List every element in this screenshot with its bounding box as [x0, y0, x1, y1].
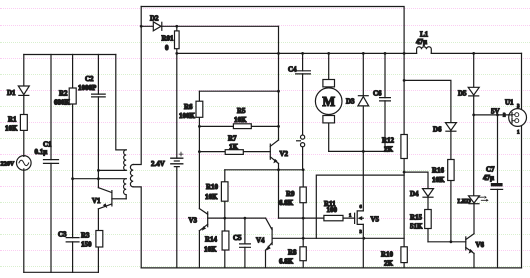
junction: motor line on supply rail [327, 52, 330, 55]
svg-text:2.4V: 2.4V [151, 160, 165, 168]
junction: V5 source / bus [362, 237, 365, 240]
wire: D2 feed wire [141, 25, 278, 27]
svg-text:V3: V3 [189, 217, 198, 225]
capacitor C6 [373, 53, 390, 151]
wire: V4 emitter to rail [265, 250, 267, 268]
junction: supply rail / box border [403, 52, 406, 55]
wire: R2 line to winding W3 [73, 178, 127, 180]
capacitor C5 [233, 218, 250, 268]
scan artifact dotted rows [0, 8, 530, 9]
svg-text:C6: C6 [373, 90, 382, 98]
wire: V1 base to winding3 [112, 198, 126, 200]
wire: LED to V6 collector [473, 204, 475, 234]
junction: node at R10 bottom [223, 217, 226, 220]
svg-text:V4: V4 [256, 237, 265, 245]
transformer winding W3 [124, 179, 127, 199]
connector pair on C4/R9 line [297, 135, 305, 170]
MOSFET V5 [349, 204, 380, 234]
junction: R01 bottom node [175, 52, 178, 55]
svg-text:1K: 1K [229, 143, 239, 151]
svg-text:1000P: 1000P [78, 84, 97, 92]
wire: V6 emitter to rail [473, 253, 475, 268]
junction: V4 base / R8 node [302, 237, 305, 240]
svg-text:D6: D6 [433, 126, 442, 134]
wire: R10-R9 tap wire [225, 169, 303, 171]
wire: V2 emitter line down to gate wire corner [278, 164, 280, 219]
svg-text:R7: R7 [228, 135, 237, 143]
wire: supply rail after L1 to right edge [431, 52, 521, 54]
transistor V1 [92, 188, 112, 209]
junction: V2 emitter line / tap wire [277, 168, 280, 171]
resistor R15 [410, 197, 431, 242]
svg-text:D1: D1 [7, 89, 16, 97]
resistor R10b [381, 247, 407, 268]
wire: V5 drain line [362, 151, 364, 211]
resistor R6 [179, 91, 203, 208]
junction: C4 line on supply rail [301, 52, 304, 55]
diode D2 [150, 15, 162, 31]
svg-text:1: 1 [517, 131, 520, 136]
main box border top and right [141, 7, 404, 268]
wire: V6 base wire [428, 241, 466, 243]
capacitor C4 [288, 53, 310, 134]
wire: V2 collector line from D2 wire [278, 26, 280, 140]
diode D3 [346, 53, 369, 151]
wire: winding W1 bottom to C2 line [98, 169, 126, 171]
junction: border / D2 wire [140, 25, 143, 28]
svg-text:0.1μ: 0.1μ [35, 148, 48, 156]
svg-text:C5: C5 [233, 234, 242, 242]
junction: R9 line / gate wire [302, 217, 305, 220]
resistor R2 [54, 55, 76, 238]
wire: top rail drop to transformer [116, 55, 126, 150]
wire: V3 emitter to rail [198, 231, 200, 268]
svg-text:R6: R6 [184, 103, 193, 111]
junction: R6 top wire on V2 collector line [277, 90, 280, 93]
svg-text:6: 6 [360, 204, 363, 209]
diode D1 [7, 86, 29, 97]
capacitor C1 [35, 55, 59, 273]
transformer winding W1 [124, 150, 127, 170]
svg-text:R14: R14 [205, 236, 218, 244]
IC U1 [503, 53, 527, 268]
junction: R5 wire on V2 collector line [277, 125, 280, 128]
motor M [315, 53, 342, 151]
svg-text:2K: 2K [384, 260, 394, 268]
resistor R1 [5, 115, 27, 133]
svg-text:6.8K: 6.8K [279, 199, 294, 207]
LED [458, 196, 489, 205]
junction: D5 drop on supply rail [472, 52, 475, 55]
inner box around V5 [316, 175, 404, 238]
wire: R9 to R8 segment [302, 218, 304, 238]
svg-text:1: 1 [349, 213, 352, 218]
svg-text:LED: LED [458, 198, 472, 205]
junction: R01 top on D2 wire [175, 25, 178, 28]
transistor V2 [270, 140, 288, 164]
svg-text:V5: V5 [371, 216, 380, 224]
junction: R16 line / V6 base wire [450, 240, 453, 243]
wire: D5 to 5V node to LED [473, 96, 475, 196]
resistor R7 [199, 135, 270, 155]
battery 2.4V [151, 53, 183, 268]
resistor R16 [432, 131, 454, 242]
svg-text:680K: 680K [54, 99, 71, 107]
resistor R14 [204, 218, 229, 268]
svg-text:150: 150 [81, 241, 92, 249]
wire: gate node wire (R10/V3/R14/C5/V4c) [225, 217, 266, 219]
resistor R10 [205, 170, 228, 218]
wire: 5V wire [474, 114, 509, 116]
resistor R5 [199, 107, 278, 129]
svg-text:47μ: 47μ [416, 38, 427, 46]
capacitor C3 [58, 231, 79, 273]
capacitor C2 [78, 55, 105, 171]
svg-text:100K: 100K [179, 112, 196, 120]
transistor V4 [256, 218, 303, 250]
capacitor C7 [483, 115, 503, 268]
junction: R2 line / W3 wire [71, 177, 74, 180]
svg-text:D4: D4 [410, 190, 419, 198]
svg-text:100: 100 [327, 206, 338, 214]
resistor R8 [279, 238, 306, 268]
diode D5 [458, 87, 479, 97]
svg-text:10K: 10K [432, 176, 445, 184]
svg-text:R01: R01 [162, 35, 175, 43]
resistor R11 [324, 200, 343, 221]
wire: V5 source to rail [362, 224, 364, 268]
junction: connector-R9 line / tap wire [302, 168, 305, 171]
junction: C5 on node wire [244, 217, 247, 220]
junction: C2 line / W1 wire [97, 169, 100, 172]
svg-text:R12: R12 [382, 137, 395, 145]
svg-text:R3: R3 [81, 232, 90, 240]
svg-text:47μ: 47μ [483, 174, 494, 182]
junction: 5V wire takeoff [472, 114, 475, 117]
wire: motor bottom bus [329, 150, 385, 152]
svg-text:R10: R10 [381, 251, 394, 259]
transistor V3 [189, 209, 225, 231]
AC source 220V [1, 156, 32, 171]
svg-text:D5: D5 [458, 90, 467, 98]
wire: left top rail [24, 54, 116, 56]
inductor L1 [416, 31, 431, 54]
svg-text:2K: 2K [384, 146, 394, 154]
diode D4 [410, 189, 434, 198]
resistor R3 [81, 209, 103, 272]
wire: main supply rail y53 [177, 52, 417, 54]
junction: C6 line on supply rail [384, 52, 387, 55]
svg-text:D2: D2 [150, 15, 159, 23]
svg-text:V1: V1 [92, 197, 101, 205]
wire: left bottom rail [24, 271, 99, 273]
resistor R12 [382, 135, 407, 159]
svg-text:V6: V6 [476, 241, 485, 249]
wire: D4 branch [404, 172, 428, 189]
transformer winding W2 [130, 165, 133, 187]
junction: D6 branch on border [403, 79, 406, 82]
wire: source node bus [303, 237, 404, 239]
svg-text:R16: R16 [432, 167, 445, 175]
svg-text:3: 3 [360, 229, 363, 234]
svg-text:51K: 51K [410, 223, 423, 231]
resistor R01 [162, 26, 180, 53]
svg-text:U1: U1 [505, 99, 514, 107]
wire: D5/LED line [473, 53, 475, 87]
svg-text:R1: R1 [8, 116, 17, 124]
resistor R9 [279, 170, 306, 218]
svg-text:10K: 10K [205, 193, 218, 201]
wire: leftmost vertical segments [23, 55, 25, 273]
svg-text:C2: C2 [85, 75, 94, 83]
svg-text:V2: V2 [280, 150, 289, 158]
svg-text:R9: R9 [286, 190, 295, 198]
svg-text:6.8K: 6.8K [279, 258, 294, 266]
svg-text:220V: 220V [1, 161, 15, 168]
main box border left with winding W2 in series [133, 7, 141, 268]
diode D6 [433, 123, 456, 134]
svg-text:R10: R10 [206, 183, 219, 191]
transistor V6 [466, 234, 485, 254]
svg-text:10K: 10K [234, 116, 247, 124]
svg-text:D3: D3 [346, 98, 355, 106]
junction: D3 line on supply rail [362, 52, 365, 55]
svg-text:R5: R5 [237, 107, 246, 115]
svg-text:0: 0 [165, 44, 169, 52]
svg-text:R15: R15 [410, 214, 423, 222]
junction: supply rail / V2 collector line [277, 52, 280, 55]
svg-text:C7: C7 [486, 166, 495, 174]
junction: C7 takeoff [496, 114, 499, 117]
svg-text:10K: 10K [5, 125, 18, 133]
wire: C2 line lower part to V1 collector [97, 170, 99, 187]
junction: R5 wire on R6 line [198, 125, 201, 128]
svg-text:10K: 10K [204, 246, 217, 254]
svg-text:M: M [322, 94, 335, 109]
svg-text:C4: C4 [288, 66, 297, 74]
junction: C2 line / W3 wire [97, 177, 100, 180]
junction: R7 wire on R6 line [198, 150, 201, 153]
wire: V5 gate wire [279, 217, 355, 219]
main box border bottom rail [141, 267, 521, 269]
svg-text:C3: C3 [58, 231, 67, 239]
svg-text:2: 2 [503, 114, 506, 119]
wire: R6 top wire [199, 90, 278, 92]
junction: drain line on motor bus [362, 150, 365, 153]
wire: D6 branch [404, 80, 451, 122]
junction: D4 branch on border [403, 171, 406, 174]
svg-text:R8: R8 [288, 249, 297, 257]
svg-text:R2: R2 [59, 90, 68, 98]
